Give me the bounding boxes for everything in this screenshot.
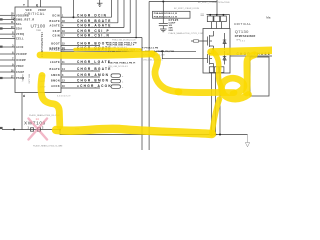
small double bar mark (201, 13, 205, 15)
left pin 8 VFRQ wire (0, 33, 15, 35)
svg-text:CSIN: CSIN (52, 35, 60, 38)
right pin 18 BGATE (61, 22, 118, 24)
wire DCIN rail long drop (148, 2, 150, 151)
U7100 top pin VDD wire (27, 0, 29, 7)
wire DCIN riser (111, 0, 113, 17)
svg-text:Q7130: Q7130 (235, 29, 249, 34)
ground under C7125 (160, 29, 167, 32)
node CSIN riser junction (135, 37, 137, 39)
right pin 17 CSIN (61, 37, 142, 39)
constraint box (153, 11, 191, 18)
svg-text:AGATE: AGATE (50, 25, 60, 28)
Q7130 source pin boxes (209, 67, 213, 73)
Q7130 package box (203, 29, 230, 74)
yellow bottom band (56, 129, 212, 134)
svg-text:a: a (122, 76, 124, 78)
svg-text:ACIN: ACIN (16, 46, 24, 49)
oval tie BMON (111, 79, 121, 82)
yellow loop (222, 78, 249, 99)
svg-text:CHGR_CSI_N: CHGR_CSI_N (77, 34, 110, 38)
wire rail right drop (229, 15, 231, 29)
right pin 12 PHASE (61, 50, 162, 52)
svg-text:PGB-AGB-DCOK-0.3_M: PGB-AGB-DCOK-0.3_M (154, 12, 177, 15)
wire PHASE to right label (162, 50, 196, 52)
svg-text:ACOK: ACOK (51, 85, 60, 88)
svg-text:=CHGR_ACOK: =CHGR_ACOK (77, 84, 112, 88)
left pin 16 CSOP wire (0, 71, 15, 73)
left pin 10 SDA wire (0, 28, 15, 30)
port stub PSON at left edge (0, 77, 3, 79)
node drain dots (209, 14, 211, 16)
ground symbol top (97, 0, 103, 7)
wire top DCIN rail (149, 1, 216, 3)
yellow fet drop (214, 53, 222, 88)
transistor Q7130 low-side FET symbol (208, 49, 214, 67)
right pin 1 DCIN (61, 16, 74, 18)
svg-text:CRITICAL: CRITICAL (234, 22, 251, 26)
wire BGATE riser (117, 0, 119, 23)
red X over XW7100 (29, 119, 48, 140)
oval tie ACOK (111, 85, 121, 88)
right pin 11 LGATE (61, 63, 100, 65)
left pin 3 ACIN wire (0, 46, 15, 48)
svg-text:Ma: Ma (266, 15, 270, 19)
svg-text:CHGR_BGATE: CHGR_BGATE (77, 67, 112, 71)
node XW right (59, 129, 61, 131)
wire CSIP riser (129, 0, 131, 33)
svg-text:PLACE_NEAR=U7100_C7125_1.5M: PLACE_NEAR=U7100_C7125_1.5M (169, 32, 203, 35)
svg-text:CHGR_AGATE: CHGR_AGATE (77, 24, 112, 28)
left pin 7 ICOMP wire (0, 59, 15, 61)
svg-text:BC_KRST_CONNECTION=TRUE: BC_KRST_CONNECTION=TRUE (198, 2, 230, 4)
right pin 15 BOOT (61, 44, 100, 46)
svg-text:NTMFS4936NF: NTMFS4936NF (235, 35, 256, 38)
Q7130 body diode (223, 33, 226, 50)
yellow right riser (247, 55, 255, 93)
wire XW row (2, 129, 60, 131)
left pin 11 SCL wire (0, 23, 15, 25)
wire CSIN riser (135, 0, 137, 38)
IC U7100 body (15, 7, 61, 93)
yellow squiggle down mid (152, 54, 179, 92)
U7100 top pin VDDP wire (40, 0, 42, 7)
wire AGATE riser to ground (123, 0, 125, 28)
svg-text:PGB_PGB_PIGBG-2_PM_PI: PGB_PGB_PIGBG-2_PM_PI (108, 62, 136, 64)
right pin 4 AGATE (61, 27, 124, 29)
jumper XW7100 pads (31, 128, 34, 131)
svg-text:BMON: BMON (51, 80, 60, 83)
right pin 14 BGATE2 (61, 70, 100, 72)
svg-text:CSOP: CSOP (16, 71, 25, 74)
bottom pad pin 21 wire (21, 93, 23, 130)
svg-text:PHASE: PHASE (50, 49, 61, 52)
left pin 4 CELL wire (0, 37, 15, 39)
port stub ACIN at left edge (0, 46, 3, 48)
svg-text:P_PTGB-1.5_PM: P_PTGB-1.5_PM (142, 47, 158, 49)
yellow bottom right riser (212, 99, 220, 134)
wire CHGR_DCIN up (73, 0, 75, 17)
left pin 17 PSON wire (0, 77, 15, 79)
svg-text:SDA: SDA (16, 28, 22, 31)
svg-text:SMB_RST_R: SMB_RST_R (16, 18, 35, 21)
svg-text:a: a (122, 81, 124, 83)
svg-text:CHGR_LGATE: CHGR_LGATE (77, 60, 111, 64)
yellow highlight ggate smear (75, 47, 140, 51)
svg-text:CHGR_DCIN: CHGR_DCIN (77, 13, 107, 17)
svg-text:BGATE: BGATE (50, 20, 60, 23)
right pin 10 ACOK (61, 87, 100, 89)
svg-text:VCOMP: VCOMP (16, 53, 27, 56)
yellow label band (211, 50, 272, 52)
svg-text:CHGR_BOOT: CHGR_BOOT (77, 42, 109, 46)
svg-text:20: 20 (36, 3, 39, 6)
svg-text:0201: 0201 (169, 30, 174, 32)
yellow bottom mid horizontal (178, 88, 234, 96)
Q7130 drain pin boxes (207, 16, 213, 22)
svg-text:CELL: CELL (16, 37, 24, 40)
left pin 6 VCOMP wire (0, 53, 15, 55)
svg-text:ICOMP: ICOMP (16, 59, 26, 62)
svg-text:CHGR_AMON: CHGR_AMON (77, 73, 109, 77)
wire bottom phase run (60, 130, 248, 135)
svg-text:CHGR_BMON: CHGR_BMON (77, 79, 109, 83)
wire Q7130 drain rail (207, 14, 230, 16)
svg-text:CHGR_CSI_P: CHGR_CSI_P (77, 29, 110, 33)
left pin 9 VREF wire (0, 65, 15, 67)
node FET midpoint (212, 48, 214, 50)
wire CSIN long drop (141, 38, 143, 151)
svg-text:3.3 3.3 2.9 2.9: 3.3 3.3 2.9 2.9 (57, 95, 71, 97)
svg-text:BBK_LAG: BBK_LAG (28, 74, 31, 84)
svg-text:AMON: AMON (51, 74, 60, 77)
oval tie AMON (111, 74, 121, 77)
svg-text:PGB_LGB_DCOK-0.3_M: PGB_LGB_DCOK-0.3_M (112, 40, 136, 42)
wire PHASE down jog (162, 51, 207, 58)
node top rail junction (162, 1, 164, 3)
svg-text:21: 21 (23, 94, 26, 97)
yellow left descender (41, 76, 60, 127)
svg-text:C7125: C7125 (169, 18, 179, 22)
svg-text:SCL: SCL (16, 23, 22, 26)
svg-text:CSIP: CSIP (53, 30, 60, 33)
capacitor C7125 (159, 23, 168, 25)
right pin 16 GGATE (61, 49, 100, 51)
svg-text:BOOT: BOOT (51, 43, 60, 46)
yellow highlight main phase row (40, 54, 152, 56)
node PHASE junction (161, 50, 163, 52)
left pin 13 SMB_RST_R wire with bubble (0, 18, 14, 20)
wire drain feed (216, 0, 218, 15)
svg-text:BGATE: BGATE (50, 68, 60, 71)
node CHGR_DCIN junction (73, 16, 75, 18)
port stub CHGR_ISENSE at left edge (0, 127, 3, 129)
right pin 13 BMON (61, 82, 100, 84)
svg-text:DCIN: DCIN (52, 14, 60, 17)
wire bottom right corner (247, 135, 249, 143)
svg-text:GFR: GFR (236, 40, 241, 42)
svg-text:14: 14 (36, 117, 40, 121)
Q7130 low-side body diode (223, 51, 226, 65)
svg-text:5: 5 (23, 3, 26, 5)
node XW left (13, 129, 15, 131)
node source dots on bottom wire (211, 134, 213, 136)
svg-text:1 X 2: 1 X 2 (240, 41, 246, 43)
right pin 3 AMON (61, 76, 100, 78)
port stub SMB_RST_R at left edge (0, 18, 3, 20)
offpage arrow bottom right (245, 143, 249, 147)
wire drain boxes to package (211, 22, 213, 29)
svg-text:VREF: VREF (16, 65, 24, 68)
svg-text:PLACE_NEAR=U7100_ICL:1NM: PLACE_NEAR=U7100_ICL:1NM (29, 114, 60, 117)
svg-text:VFRQ: VFRQ (16, 33, 24, 36)
svg-text:CHGR_BGATE: CHGR_BGATE (77, 19, 112, 23)
Q7130 mosfet symbol (191, 40, 208, 42)
svg-text:LGATE: LGATE (50, 61, 60, 64)
svg-text:a: a (122, 87, 124, 89)
svg-text:PLACE_NEAR=U7100.22-1MM: PLACE_NEAR=U7100.22-1MM (33, 145, 63, 148)
wire junction to capacitor (162, 2, 164, 24)
svg-text:VDDSMB: VDDSMB (16, 14, 29, 17)
inductor box right (250, 57, 269, 96)
port stub SDA at left edge (0, 27, 3, 29)
svg-text:PSON: PSON (16, 77, 25, 80)
svg-text:U7100: U7100 (31, 23, 46, 28)
svg-text:BC_KRST_/CBGR_KCION: BC_KRST_/CBGR_KCION (174, 8, 200, 10)
gate resistor on Q7130 gate (194, 40, 199, 42)
left pin 18 VDDSMB wire (0, 14, 15, 16)
wire source verticals (211, 73, 213, 135)
right pin 19 CSIP (61, 32, 130, 34)
